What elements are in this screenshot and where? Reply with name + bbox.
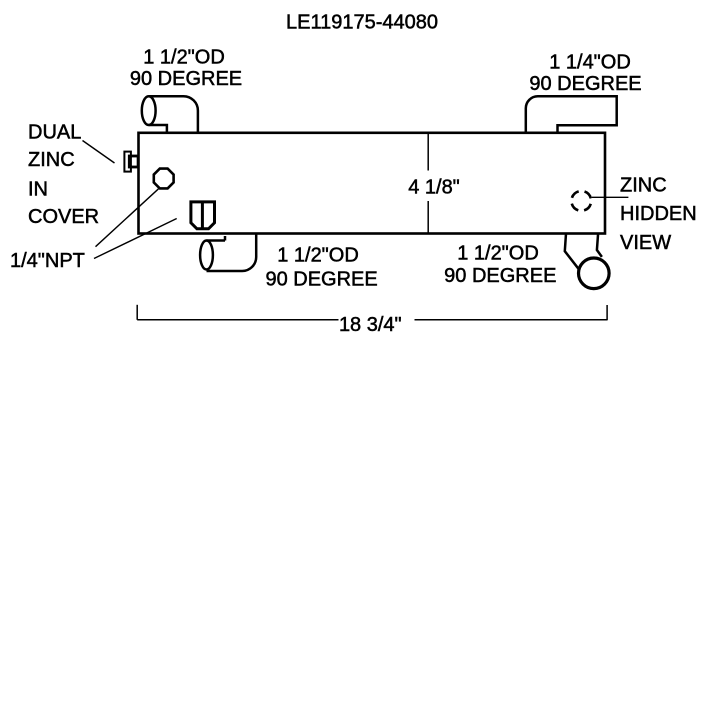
svg-text:ZINC: ZINC — [28, 149, 75, 171]
zinc plug on left cover — [124, 152, 138, 172]
label bottom-center-left 1 1/2"OD 90 DEGREE — [265, 245, 377, 291]
zinc hidden view dashed circle — [571, 191, 591, 211]
drain cup fitting on body — [191, 202, 215, 229]
svg-text:1 1/2"OD: 1 1/2"OD — [457, 243, 539, 265]
bottom-left elbow 1 1/2 OD — [200, 234, 256, 272]
dimension 18 3/4 right tick — [606, 305, 608, 320]
svg-text:ZINC: ZINC — [620, 174, 667, 196]
svg-text:4 1/8": 4 1/8" — [408, 177, 460, 199]
svg-text:1 1/2"OD: 1 1/2"OD — [277, 245, 359, 267]
label ZINC HIDDEN VIEW — [620, 174, 697, 254]
leader from DUAL ZINC to plug — [83, 141, 115, 164]
dimension 18 3/4 line left segment — [137, 319, 338, 321]
leader 1/4 NPT to octagon — [96, 189, 159, 247]
label bottom-center-right 1 1/2"OD 90 DEGREE — [444, 243, 556, 288]
dimension 18 3/4 left tick — [136, 305, 138, 320]
svg-text:IN: IN — [28, 179, 48, 201]
dimension 4 1/8 vertical line lower segment — [427, 201, 429, 233]
dimension 4 1/8 vertical line upper segment — [427, 134, 429, 171]
leader from dashed circle to ZINC label — [592, 196, 628, 198]
svg-text:1/4"NPT: 1/4"NPT — [10, 250, 85, 272]
svg-text:COVER: COVER — [28, 206, 99, 228]
leader 1/4 NPT to cup — [94, 219, 177, 259]
svg-text:90 DEGREE: 90 DEGREE — [265, 269, 377, 291]
pipe end circle — [579, 258, 610, 289]
svg-text:1 1/2"OD: 1 1/2"OD — [143, 47, 225, 69]
svg-text:1 1/4"OD: 1 1/4"OD — [549, 52, 631, 74]
svg-text:HIDDEN: HIDDEN — [620, 203, 697, 225]
bottom-right elbow 1 1/2 OD angled with open end circle — [565, 234, 602, 270]
dimension 18 3/4 line right segment — [415, 319, 608, 321]
label top-right 1 1/4"OD 90 DEGREE — [529, 52, 641, 96]
top-left elbow 1 1/2 OD — [142, 96, 198, 133]
svg-text:90 DEGREE: 90 DEGREE — [444, 265, 556, 287]
svg-text:VIEW: VIEW — [620, 232, 671, 254]
top-right elbow 1 1/4 OD — [526, 96, 617, 133]
svg-text:90 DEGREE: 90 DEGREE — [529, 73, 641, 95]
label top-left 1 1/2"OD 90 DEGREE — [130, 47, 242, 91]
svg-text:DUAL: DUAL — [28, 122, 81, 144]
octagon 1/4 NPT hole — [154, 169, 174, 189]
label DUAL ZINC IN COVER — [28, 122, 99, 229]
svg-text:18 3/4": 18 3/4" — [339, 314, 402, 336]
svg-text:LE119175-44080: LE119175-44080 — [286, 12, 438, 34]
body rectangle — [139, 133, 606, 234]
svg-text:90 DEGREE: 90 DEGREE — [130, 68, 242, 90]
